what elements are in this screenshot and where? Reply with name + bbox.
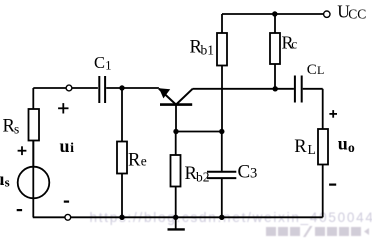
svg-text:3: 3: [250, 166, 257, 182]
wire collector line left: [193, 88, 294, 90]
node dot top rail at Rc: [272, 11, 277, 16]
wire bottom rail: [33, 216, 323, 218]
node dot C3 bottom: [219, 215, 224, 220]
node dot Re bottom: [119, 215, 124, 220]
resistor Rs: [3, 109, 40, 141]
wire top supply rail: [222, 13, 323, 15]
svg-text:o: o: [348, 140, 355, 155]
svg-text:u: u: [338, 133, 348, 153]
watermark toutiao: [266, 226, 369, 237]
collector diagonal: [176, 89, 193, 105]
emitter diagonal: [159, 89, 176, 105]
node dot collector at Rc: [273, 86, 278, 91]
svg-text:s: s: [14, 122, 19, 137]
terminal circle input top: [66, 85, 72, 91]
svg-text:1: 1: [105, 58, 111, 72]
wire base node line: [176, 131, 222, 133]
wire C3 leg upper: [221, 132, 223, 171]
resistor Rc: [270, 32, 297, 64]
wire left rail lower: [32, 141, 34, 218]
node dot after C1: [119, 85, 124, 90]
svg-text:L: L: [317, 63, 324, 77]
wire C1 to emitter: [106, 87, 159, 89]
wire Rb1 top lead: [221, 14, 223, 33]
minus sign uo: [329, 184, 336, 186]
svg-text:s: s: [5, 175, 10, 190]
svg-text:e: e: [141, 153, 147, 168]
svg-text:C: C: [238, 162, 251, 183]
capacitor C1: [94, 53, 112, 103]
wire Rc top lead: [274, 14, 276, 33]
node dot Rb2 bottom: [173, 215, 178, 220]
source us: [0, 167, 49, 199]
wire Rs lower lead through source: [32, 141, 34, 167]
svg-text:L: L: [308, 142, 316, 157]
node dot base-Rb1: [219, 129, 224, 134]
terminal circle input bottom: [65, 214, 71, 220]
wire left rail upper: [32, 88, 34, 109]
wire Rb2 leg lower: [175, 187, 177, 218]
wire C3 leg lower: [221, 179, 223, 217]
label ui: [60, 136, 75, 156]
svg-text:b1: b1: [201, 43, 215, 58]
capacitor C3: [207, 162, 257, 183]
wire input top line: [33, 87, 98, 89]
svg-text:c: c: [291, 36, 297, 51]
resistor Re: [117, 142, 147, 174]
label uo: [338, 133, 355, 155]
plus sign uo: [329, 110, 337, 118]
resistor Rb2: [171, 155, 210, 187]
wire Rb2 leg upper: [175, 132, 177, 156]
ground: [168, 217, 185, 229]
svg-text:R: R: [294, 137, 307, 157]
wire base lead down: [175, 105, 177, 132]
base bar: [160, 103, 192, 106]
minus sign us: [17, 209, 22, 211]
svg-text:C: C: [307, 62, 317, 78]
wire Rb1 bottom lead to base node: [221, 66, 223, 132]
wire RL bottom lead: [322, 165, 324, 218]
transistor Q1: [159, 88, 193, 104]
svg-text:C: C: [94, 53, 105, 72]
wire Rc bottom lead: [274, 64, 276, 89]
node dot base: [173, 129, 178, 134]
wire collector line right of CL: [303, 88, 323, 90]
wire Re leg lower: [121, 174, 123, 218]
svg-text:CC: CC: [348, 6, 366, 21]
minus sign ui: [64, 201, 69, 203]
svg-text:R: R: [128, 150, 141, 170]
resistor Rb1: [190, 33, 228, 66]
plus sign ui: [58, 103, 68, 113]
plus sign us: [18, 146, 27, 155]
emitter arrow: [159, 88, 170, 98]
svg-text:i: i: [70, 141, 74, 156]
wire output down leg: [322, 89, 324, 129]
wire Re leg upper: [121, 88, 123, 142]
capacitor CL: [295, 62, 324, 103]
resistor RL: [294, 129, 328, 165]
supply terminal Ucc: [324, 2, 367, 22]
svg-text:u: u: [60, 136, 70, 156]
